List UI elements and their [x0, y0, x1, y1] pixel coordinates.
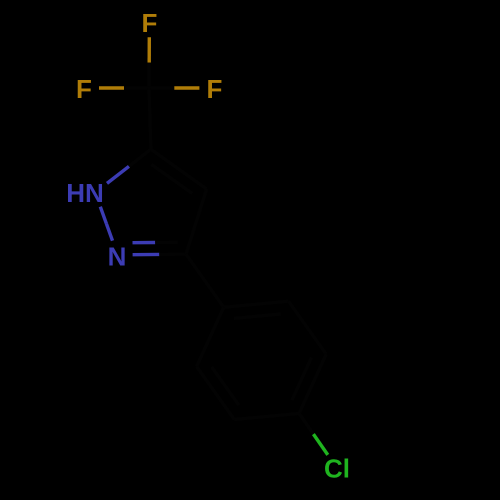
bond N2=C3 main line — [133, 253, 160, 257]
benzene bond C6-C5 — [289, 301, 327, 354]
benzene bond C3=C2 inner — [212, 367, 239, 405]
svg-text:F: F — [141, 8, 157, 38]
benzene bond C1-C6 main — [224, 301, 289, 307]
bond C4=C5 main line — [151, 149, 207, 189]
benzene bond C1=C6 inner — [234, 314, 281, 318]
bond F1-C (C-F) — [147, 37, 151, 62]
benzene bond C5-C4 main — [299, 354, 326, 413]
svg-text:F: F — [206, 74, 222, 104]
bond N2=C3 inner line — [133, 241, 156, 245]
svg-text:HN: HN — [66, 178, 104, 208]
bond F3-C (C-F) — [174, 86, 199, 89]
benzene bond C4-C3 — [234, 413, 299, 419]
svg-text:Cl: Cl — [324, 453, 350, 483]
bond N1-C5 — [107, 166, 129, 183]
bond C4-Cl — [299, 413, 313, 434]
benzene bond C3-C2 main — [197, 367, 235, 420]
benzene bond C5=C4 inner — [292, 357, 312, 400]
bond C3-C4 — [186, 189, 207, 254]
bond F2-C (C-F) — [99, 86, 124, 89]
bond CF3-C5 (C-C) — [149, 88, 151, 149]
svg-text:F: F — [76, 74, 92, 104]
benzene bond C2-C1 — [197, 307, 224, 366]
svg-text:N: N — [108, 241, 127, 271]
bond C4=C5 inner line — [151, 164, 192, 193]
bond C3-C1 phenyl link — [186, 254, 224, 307]
bond N1-N2 — [100, 207, 106, 224]
